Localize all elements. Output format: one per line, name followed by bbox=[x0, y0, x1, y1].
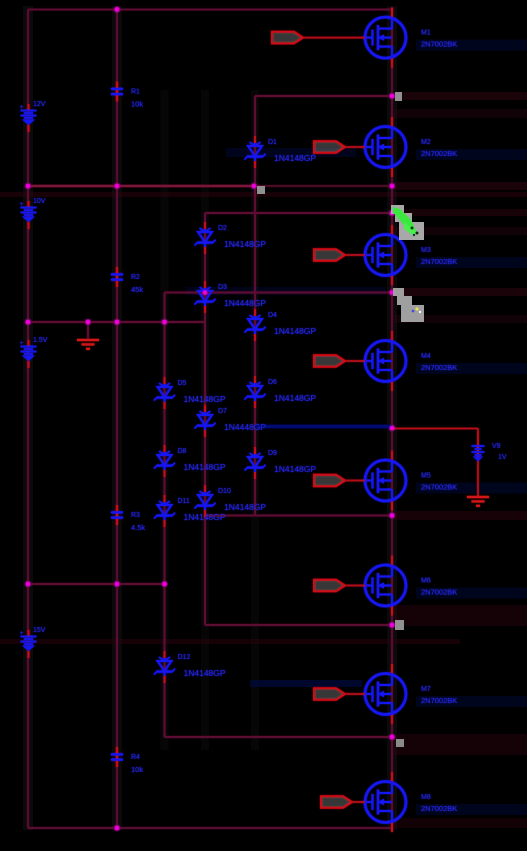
wire node n3 horizontal bbox=[205, 212, 392, 214]
svg-text:10k: 10k bbox=[131, 765, 143, 774]
diode D7 bbox=[195, 405, 267, 437]
voltage source V1 12V bbox=[20, 101, 46, 132]
wire node n2 long horizontal bbox=[28, 185, 254, 187]
diode D10 bbox=[195, 485, 267, 517]
transistor M4 bbox=[365, 341, 457, 382]
svg-text:1N4148GP: 1N4148GP bbox=[184, 462, 226, 472]
svg-text:D5: D5 bbox=[178, 380, 187, 387]
diode D6 bbox=[245, 376, 317, 408]
svg-text:D2: D2 bbox=[218, 225, 227, 232]
svg-text:D8: D8 bbox=[178, 448, 187, 455]
svg-text:2N7002BK: 2N7002BK bbox=[421, 149, 457, 158]
svg-text:2N7002BK: 2N7002BK bbox=[421, 588, 457, 597]
node selection handle B bbox=[257, 186, 265, 194]
node junction 28,186 bbox=[25, 183, 32, 190]
diode D1 bbox=[245, 136, 317, 168]
wire node n8 horizontal bbox=[28, 583, 165, 585]
port IN4 bbox=[314, 355, 365, 367]
svg-text:45k: 45k bbox=[131, 285, 143, 294]
svg-text:D11: D11 bbox=[178, 498, 190, 505]
svg-text:1N4448GP: 1N4448GP bbox=[224, 298, 266, 308]
node selection handle D bbox=[396, 739, 404, 747]
wire diode column x163 bbox=[164, 293, 166, 738]
svg-text:R1: R1 bbox=[131, 89, 140, 96]
node selection handle C bbox=[395, 620, 404, 630]
wire left source column bbox=[27, 10, 29, 829]
svg-text:M6: M6 bbox=[421, 578, 431, 585]
svg-text:R2: R2 bbox=[131, 274, 140, 281]
resistor R4 10k bbox=[111, 747, 143, 774]
node cursor green bbox=[391, 205, 424, 240]
diode D2 bbox=[195, 222, 267, 254]
port IN7 bbox=[314, 688, 365, 700]
resistor R2 45k bbox=[111, 267, 143, 294]
svg-text:1N4148GP: 1N4148GP bbox=[184, 394, 226, 404]
node junction 392,625 bbox=[389, 622, 396, 629]
svg-text:D6: D6 bbox=[268, 379, 277, 386]
port IN8 bbox=[321, 796, 365, 808]
transistor M7 bbox=[365, 674, 457, 715]
port IN2 bbox=[314, 141, 365, 153]
svg-text:1.5V: 1.5V bbox=[33, 337, 48, 344]
wire ground stem bbox=[87, 322, 89, 338]
svg-text:4.5k: 4.5k bbox=[131, 523, 145, 532]
voltage source V9 1V bbox=[472, 433, 507, 462]
svg-text:M2: M2 bbox=[421, 139, 431, 146]
voltage source V2 10V bbox=[20, 198, 46, 229]
transistor M1 bbox=[365, 17, 457, 58]
svg-text:1N4148GP: 1N4148GP bbox=[274, 393, 316, 403]
node junction 392,292 bbox=[389, 289, 396, 296]
svg-text:V9: V9 bbox=[492, 443, 501, 450]
wire node n10 horizontal bbox=[165, 736, 393, 738]
diode D4 bbox=[245, 309, 317, 341]
wire diode column x205 bbox=[204, 213, 206, 625]
node junction 88,322 bbox=[85, 319, 92, 326]
node junction 164.5,322 bbox=[161, 319, 168, 326]
svg-text:1N4148GP: 1N4148GP bbox=[184, 512, 226, 522]
diode D11 bbox=[154, 495, 226, 527]
wire to V9 branch bbox=[392, 428, 478, 430]
diode D3 bbox=[195, 281, 267, 313]
svg-text:2N7002BK: 2N7002BK bbox=[421, 40, 457, 49]
node junction 117,186 bbox=[114, 183, 121, 190]
svg-text:12V: 12V bbox=[33, 101, 46, 108]
svg-text:1N4148GP: 1N4148GP bbox=[274, 464, 316, 474]
node junction 392,213 bbox=[389, 210, 396, 217]
node junction 392,515 bbox=[389, 512, 396, 519]
resistor R3 4.5k bbox=[111, 505, 145, 532]
node junction 117,322 bbox=[114, 319, 121, 326]
transistor M8 bbox=[365, 782, 457, 823]
svg-text:D7: D7 bbox=[218, 408, 227, 415]
node junction 392,428 bbox=[389, 425, 396, 432]
node junction 205,292 bbox=[202, 289, 209, 296]
svg-text:D4: D4 bbox=[268, 312, 277, 319]
node selection handle A bbox=[395, 92, 402, 101]
wire node n1 horizontal bbox=[255, 95, 392, 97]
node junction 392,186 bbox=[389, 183, 396, 190]
svg-text:R4: R4 bbox=[131, 754, 140, 761]
transistor M2 bbox=[365, 127, 457, 168]
wire node n9 horizontal bbox=[205, 624, 392, 626]
port IN6 bbox=[314, 580, 365, 592]
port IN3 bbox=[314, 249, 365, 261]
transistor M6 bbox=[365, 565, 457, 606]
svg-text:D3: D3 bbox=[218, 284, 227, 291]
svg-text:1N4148GP: 1N4148GP bbox=[274, 153, 316, 163]
transistor M3 bbox=[365, 235, 457, 276]
node junction 117,584 bbox=[114, 581, 121, 588]
wire diode column x255 bbox=[254, 96, 256, 516]
diode D9 bbox=[245, 447, 317, 479]
svg-text:M5: M5 bbox=[421, 473, 431, 480]
port IN1 bbox=[272, 32, 365, 44]
voltage source V4 15V bbox=[20, 627, 46, 658]
svg-text:1N4448GP: 1N4448GP bbox=[224, 422, 266, 432]
wire ground bottom rail bbox=[28, 827, 392, 829]
node junction 392,737 bbox=[389, 734, 396, 741]
wire drain-source bus bbox=[391, 10, 393, 829]
svg-text:M4: M4 bbox=[421, 353, 431, 360]
svg-text:1N4148GP: 1N4148GP bbox=[274, 326, 316, 336]
node junction 117,9 bbox=[114, 6, 121, 13]
wire node n6 blue segment bbox=[255, 425, 392, 429]
wire node n7 horizontal bbox=[205, 515, 392, 517]
wire VCC top rail bbox=[28, 9, 392, 11]
svg-text:15V: 15V bbox=[33, 627, 46, 634]
wire node n2 right segment bbox=[254, 185, 392, 187]
svg-text:1N4148GP: 1N4148GP bbox=[224, 502, 266, 512]
svg-text:R3: R3 bbox=[131, 512, 140, 519]
node junction 392,96 bbox=[389, 93, 396, 100]
resistor R1 10k bbox=[111, 82, 143, 109]
svg-text:2N7002BK: 2N7002BK bbox=[421, 257, 457, 266]
svg-text:2N7002BK: 2N7002BK bbox=[421, 483, 457, 492]
svg-text:M7: M7 bbox=[421, 686, 431, 693]
wire node n4 horizontal bbox=[165, 292, 393, 294]
svg-text:D1: D1 bbox=[268, 139, 277, 146]
ground GND1 bbox=[77, 340, 99, 349]
svg-text:M8: M8 bbox=[421, 794, 431, 801]
node cursor ghost bbox=[393, 288, 424, 322]
port IN5 bbox=[314, 475, 365, 487]
wire node n5 horizontal bbox=[28, 321, 205, 323]
svg-text:D12: D12 bbox=[178, 654, 191, 661]
svg-text:D10: D10 bbox=[218, 488, 231, 495]
diode D12 bbox=[154, 651, 226, 683]
svg-text:1V: 1V bbox=[498, 454, 507, 461]
svg-text:10V: 10V bbox=[33, 198, 46, 205]
svg-text:1N4148GP: 1N4148GP bbox=[184, 668, 226, 678]
svg-text:2N7002BK: 2N7002BK bbox=[421, 804, 457, 813]
wire bus stubs bbox=[391, 8, 393, 832]
node junction 164.5,584 bbox=[161, 581, 168, 588]
transistor M5 bbox=[365, 460, 457, 501]
wire resistor column bbox=[116, 10, 118, 829]
svg-text:10k: 10k bbox=[131, 100, 143, 109]
wire V9 column bbox=[477, 429, 479, 497]
svg-text:1N4148GP: 1N4148GP bbox=[224, 239, 266, 249]
svg-text:M3: M3 bbox=[421, 247, 431, 254]
diode D8 bbox=[154, 445, 226, 477]
node junction 28,322 bbox=[25, 319, 32, 326]
svg-text:D9: D9 bbox=[268, 450, 277, 457]
voltage source V3 1.5V bbox=[20, 337, 48, 368]
ground GND2 bbox=[467, 497, 489, 506]
svg-text:2N7002BK: 2N7002BK bbox=[421, 363, 457, 372]
svg-text:M1: M1 bbox=[421, 30, 431, 37]
node junction 117,828 bbox=[114, 825, 121, 832]
diode D5 bbox=[154, 377, 226, 409]
node junction 254,186 bbox=[251, 183, 258, 190]
node junction 28,584 bbox=[25, 581, 32, 588]
svg-text:2N7002BK: 2N7002BK bbox=[421, 696, 457, 705]
